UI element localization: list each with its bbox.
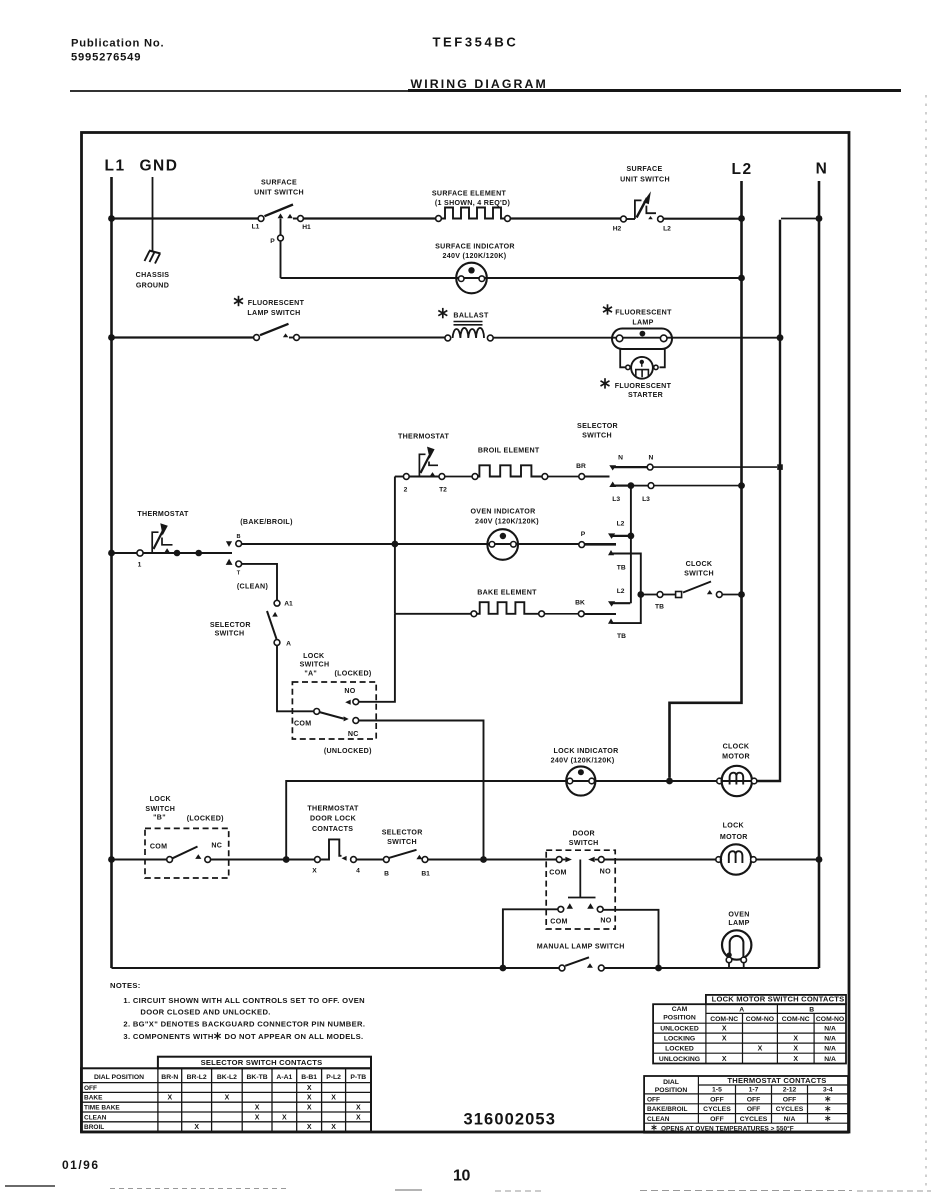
- svg-text:N/A: N/A: [824, 1026, 836, 1033]
- svg-text:BAKE ELEMENT: BAKE ELEMENT: [477, 589, 537, 597]
- wire BK input to selector: [584, 613, 616, 615]
- switch selector switch (left) A1-A: [274, 600, 280, 606]
- svg-text:WIRING DIAGRAM: WIRING DIAGRAM: [411, 77, 548, 91]
- svg-text:TEF354BC: TEF354BC: [433, 35, 519, 50]
- switch selector (BAKE/BROIL) contact: [226, 541, 232, 547]
- node junction N top rail: [816, 215, 823, 222]
- wire BR to selector: [585, 476, 610, 478]
- svg-text:THERMOSTAT: THERMOSTAT: [137, 510, 189, 518]
- svg-text:X: X: [307, 1124, 312, 1131]
- svg-text:B: B: [236, 534, 240, 540]
- svg-text:T2: T2: [439, 487, 447, 494]
- node junction door row x483: [480, 856, 487, 863]
- lamp lock indicator: [566, 766, 595, 795]
- svg-text:SURFACE: SURFACE: [627, 165, 663, 173]
- svg-text:LOCK: LOCK: [303, 652, 325, 660]
- svg-text:CLEAN: CLEAN: [647, 1116, 670, 1123]
- node junction bottom row x503: [500, 965, 507, 972]
- svg-text:LOCKING: LOCKING: [664, 1036, 695, 1043]
- svg-text:(CLEAN): (CLEAN): [237, 583, 269, 591]
- wire fluorescent row segment 1: [112, 336, 254, 338]
- svg-text:B-B1: B-B1: [301, 1074, 317, 1081]
- svg-text:CYCLES: CYCLES: [776, 1106, 804, 1113]
- svg-text:SWITCH: SWITCH: [569, 839, 599, 847]
- svg-text:COM-NO: COM-NO: [816, 1016, 844, 1023]
- wire door row segment 1: [112, 859, 167, 861]
- svg-text:LOCKED: LOCKED: [665, 1046, 694, 1053]
- svg-text:1: 1: [138, 562, 142, 569]
- table selector switch contacts: [158, 1057, 371, 1069]
- node junction L2 indicator row: [738, 275, 745, 282]
- svg-text:SELECTOR: SELECTOR: [577, 422, 618, 430]
- svg-text:L3: L3: [642, 496, 650, 503]
- svg-text:P-TB: P-TB: [350, 1074, 366, 1081]
- svg-text:"A": "A": [304, 669, 317, 677]
- wire P branch from surface unit switch: [280, 219, 282, 279]
- svg-text:DOOR: DOOR: [572, 830, 594, 838]
- wire bottom row segment 1: [112, 967, 560, 969]
- node junction TB bracket clock row: [637, 591, 644, 598]
- svg-text:MANUAL LAMP SWITCH: MANUAL LAMP SWITCH: [537, 943, 625, 951]
- svg-text:X: X: [331, 1095, 336, 1102]
- svg-text:X: X: [722, 1056, 727, 1063]
- svg-text:TB: TB: [617, 633, 626, 640]
- svg-text:CLOCK: CLOCK: [723, 743, 750, 751]
- svg-text:SWITCH: SWITCH: [684, 570, 714, 578]
- svg-text:POSITION: POSITION: [655, 1087, 688, 1094]
- svg-text:LOCK MOTOR SWITCH CONTACTS: LOCK MOTOR SWITCH CONTACTS: [712, 995, 845, 1004]
- lamp oven lamp: [722, 930, 751, 959]
- heater bake element: [471, 611, 477, 617]
- svg-text:UNIT SWITCH: UNIT SWITCH: [620, 176, 670, 184]
- svg-text:L3: L3: [612, 496, 620, 503]
- switch manual lamp switch: [559, 965, 565, 971]
- svg-text:MOTOR: MOTOR: [722, 753, 750, 761]
- svg-text:N: N: [816, 161, 829, 178]
- svg-text:CYCLES: CYCLES: [740, 1116, 768, 1123]
- svg-text:01/96: 01/96: [62, 1158, 100, 1172]
- node junction L2 top rail: [738, 215, 745, 222]
- scan artifact bottom marks: [5, 1185, 55, 1187]
- svg-text:SURFACE INDICATOR: SURFACE INDICATOR: [435, 243, 515, 251]
- svg-text:B1: B1: [421, 871, 430, 878]
- svg-text:NC: NC: [211, 842, 222, 850]
- svg-text:LAMP: LAMP: [632, 319, 653, 327]
- node junction L1 fluorescent row: [108, 334, 115, 341]
- wire top rail segment 2: [304, 217, 436, 219]
- svg-text:1. CIRCUIT SHOWN WITH ALL CON: 1. CIRCUIT SHOWN WITH ALL CONTROLS SET T…: [123, 996, 365, 1005]
- svg-text:X: X: [758, 1046, 763, 1053]
- svg-text:THERMOSTAT CONTACTS: THERMOSTAT CONTACTS: [727, 1076, 826, 1085]
- wire x395 vertical upper: [394, 477, 396, 614]
- svg-text:L2: L2: [617, 588, 625, 595]
- svg-text:X: X: [793, 1046, 798, 1053]
- svg-text:3. COMPONENTS WITH: 3. COMPONENTS WITH: [123, 1032, 213, 1041]
- svg-text:N/A: N/A: [824, 1056, 836, 1063]
- wire top rail segment 3: [511, 217, 621, 219]
- wire P input to selector: [585, 544, 616, 546]
- svg-text:2. BG"X" DENOTES BACKGUARD CO: 2. BG"X" DENOTES BACKGUARD CONNECTOR PIN…: [123, 1020, 365, 1029]
- svg-text:OFF: OFF: [747, 1106, 761, 1113]
- svg-text:TIME BAKE: TIME BAKE: [84, 1105, 120, 1112]
- svg-text:DIAL POSITION: DIAL POSITION: [94, 1074, 144, 1081]
- svg-text:A: A: [286, 641, 291, 648]
- svg-text:DOOR CLOSED AND UNLOCKED.: DOOR CLOSED AND UNLOCKED.: [140, 1008, 270, 1017]
- header rule: [70, 90, 408, 92]
- heater broil element: [472, 474, 478, 480]
- svg-text:COM: COM: [549, 869, 566, 877]
- switch fluorescent lamp switch marker: [234, 296, 243, 306]
- svg-text:SURFACE: SURFACE: [261, 179, 297, 187]
- svg-text:CHASSIS: CHASSIS: [136, 271, 170, 279]
- svg-text:"B": "B": [153, 814, 166, 822]
- wire broil row lead: [395, 476, 403, 478]
- node junction fluorescent to N branch: [777, 334, 784, 341]
- switch surface unit switch (left): [258, 216, 264, 222]
- svg-text:316002053: 316002053: [464, 1111, 557, 1129]
- svg-text:DIAL: DIAL: [663, 1079, 679, 1086]
- svg-text:L1: L1: [105, 158, 126, 175]
- node junction L1 top rail: [108, 215, 115, 222]
- wire door row segment 6: [487, 859, 557, 861]
- svg-text:B: B: [809, 1007, 814, 1014]
- node junction oven indicator row x395: [392, 541, 399, 548]
- svg-text:T: T: [237, 571, 241, 577]
- svg-text:X: X: [225, 1095, 230, 1102]
- node junction L1 door row: [108, 856, 115, 863]
- svg-text:BK-L2: BK-L2: [217, 1074, 237, 1081]
- svg-text:OFF: OFF: [710, 1116, 724, 1123]
- switch selector L3 contact: [609, 482, 616, 488]
- switch lock switch A contacts: [314, 709, 320, 715]
- svg-text:SWITCH: SWITCH: [387, 838, 417, 846]
- wire top rail segment 4: [664, 218, 740, 220]
- svg-text:SELECTOR SWITCH CONTACTS: SELECTOR SWITCH CONTACTS: [201, 1058, 323, 1067]
- svg-text:B: B: [384, 871, 389, 878]
- switch fluorescent lamp switch: [254, 335, 260, 341]
- wire A to lock switch A COM: [277, 646, 314, 712]
- wire N branch to N bus top: [781, 218, 818, 220]
- svg-text:NO: NO: [600, 917, 611, 925]
- switch selector B-B1: [383, 857, 389, 863]
- svg-text:OVEN INDICATOR: OVEN INDICATOR: [470, 508, 535, 516]
- svg-text:240V (120K/120K): 240V (120K/120K): [475, 518, 539, 526]
- svg-text:L1: L1: [252, 224, 260, 231]
- svg-text:NO: NO: [600, 868, 611, 876]
- svg-text:SWITCH: SWITCH: [215, 630, 245, 638]
- wire door row segment 8: [756, 859, 817, 861]
- svg-text:SELECTOR: SELECTOR: [382, 829, 423, 837]
- svg-text:UNLOCKED: UNLOCKED: [660, 1026, 699, 1033]
- svg-text:LOCK INDICATOR: LOCK INDICATOR: [553, 747, 618, 755]
- svg-text:FLUORESCENT: FLUORESCENT: [248, 299, 305, 307]
- svg-text:240V (120K/120K): 240V (120K/120K): [443, 252, 507, 260]
- switch door switch plunger: [579, 860, 581, 898]
- svg-text:LOCK: LOCK: [723, 822, 745, 830]
- table thermostat contacts: [644, 1076, 848, 1133]
- svg-text:4: 4: [356, 868, 360, 875]
- lamp fluorescent starter marker: [601, 378, 610, 388]
- wire door row segment 3: [289, 859, 314, 861]
- svg-text:TB: TB: [617, 565, 626, 572]
- table thermostat contacts footnote: [652, 1125, 657, 1131]
- wire L3 contact to L2 bus: [654, 485, 739, 487]
- svg-text:UNLOCKING: UNLOCKING: [659, 1056, 700, 1063]
- wire broil row segment: [445, 476, 472, 478]
- terminal P input: [579, 542, 585, 548]
- svg-text:NC: NC: [348, 730, 359, 738]
- wire door switch COM2 to lamp row: [503, 909, 558, 965]
- terminal BR input: [579, 474, 585, 480]
- switch selector TB lower contact arrow: [608, 618, 614, 623]
- svg-text:COM: COM: [294, 720, 311, 728]
- svg-text:2-12: 2-12: [783, 1087, 797, 1094]
- svg-text:X: X: [307, 1085, 312, 1092]
- wire bake row lead: [395, 613, 471, 615]
- node junction N bus door row: [816, 856, 823, 863]
- wire fluorescent row segment 3: [493, 337, 778, 339]
- chassis ground symbol: [149, 251, 161, 254]
- svg-text:OFF: OFF: [84, 1085, 97, 1092]
- lamp fluorescent starter leads: [620, 349, 625, 367]
- svg-text:X: X: [356, 1105, 361, 1112]
- wire selector vertical x631: [630, 486, 632, 604]
- svg-text:X: X: [312, 868, 317, 875]
- switch selector (CLEAN) contact: [226, 559, 233, 565]
- svg-text:CLEAN: CLEAN: [84, 1114, 107, 1121]
- node junction door row x286: [283, 856, 290, 863]
- svg-text:3-4: 3-4: [823, 1087, 833, 1094]
- scan artifact right page edge: [925, 95, 927, 1190]
- svg-text:SELECTOR: SELECTOR: [210, 621, 251, 629]
- svg-text:BR: BR: [576, 463, 586, 470]
- wire lock indicator row riser: [286, 781, 780, 857]
- wire L1 bus: [110, 177, 113, 968]
- svg-text:STARTER: STARTER: [628, 391, 663, 399]
- wire surface indicator row: [281, 277, 740, 279]
- svg-text:OPENS AT OVEN TEMPERATURES > 5: OPENS AT OVEN TEMPERATURES > 550°F: [661, 1124, 794, 1132]
- svg-text:BROIL ELEMENT: BROIL ELEMENT: [478, 447, 540, 455]
- switch door switch upper contacts: [556, 857, 562, 863]
- svg-text:(UNLOCKED): (UNLOCKED): [324, 747, 372, 755]
- svg-text:POSITION: POSITION: [663, 1015, 696, 1022]
- node junction square N branch: [777, 464, 783, 470]
- svg-text:BALLAST: BALLAST: [453, 312, 489, 320]
- svg-text:A-A1: A-A1: [276, 1074, 292, 1081]
- svg-text:X: X: [307, 1095, 312, 1102]
- terminal BK input: [578, 611, 584, 617]
- node junction L1 thermostat row: [108, 550, 115, 557]
- svg-text:THERMOSTAT: THERMOSTAT: [398, 433, 450, 441]
- wire door row segment 5: [428, 859, 481, 861]
- svg-text:SURFACE ELEMENT: SURFACE ELEMENT: [432, 190, 507, 198]
- svg-text:BR-N: BR-N: [161, 1074, 178, 1081]
- svg-text:THERMOSTAT: THERMOSTAT: [307, 805, 359, 813]
- svg-text:(LOCKED): (LOCKED): [187, 815, 224, 823]
- wire clock switch row lead: [644, 594, 657, 596]
- wire thermostat row lead: [112, 552, 138, 554]
- lamp fluorescent lamp: [612, 329, 672, 350]
- wire bake row to BK: [545, 613, 579, 615]
- svg-text:(1 SHOWN, 4 REQ'D): (1 SHOWN, 4 REQ'D): [435, 199, 511, 207]
- svg-text:X: X: [282, 1114, 287, 1121]
- svg-text:5995276549: 5995276549: [71, 52, 141, 64]
- drawing border frame: [82, 133, 850, 1133]
- svg-text:OVEN: OVEN: [728, 911, 749, 919]
- svg-text:COM-NC: COM-NC: [710, 1016, 738, 1023]
- thermostat broil (upper): [403, 474, 409, 480]
- svg-text:FLUORESCENT: FLUORESCENT: [615, 309, 672, 317]
- svg-text:OFF: OFF: [783, 1096, 797, 1103]
- svg-text:COM: COM: [150, 843, 167, 851]
- svg-text:BAKE: BAKE: [84, 1095, 103, 1102]
- svg-text:P: P: [581, 531, 586, 538]
- svg-text:X: X: [793, 1036, 798, 1043]
- svg-text:A: A: [739, 1007, 744, 1014]
- svg-text:DO NOT APPEAR ON ALL MODELS.: DO NOT APPEAR ON ALL MODELS.: [225, 1032, 364, 1041]
- svg-text:N/A: N/A: [824, 1036, 836, 1043]
- wire broil row to BR: [548, 476, 579, 478]
- node pin dot thermostat a: [174, 550, 181, 557]
- svg-text:X: X: [255, 1105, 260, 1112]
- svg-text:TB: TB: [655, 604, 664, 611]
- motor lock motor: [716, 857, 722, 863]
- svg-text:COM: COM: [550, 918, 567, 926]
- node junction L2 jog lock row: [666, 778, 673, 785]
- svg-text:OFF: OFF: [747, 1096, 761, 1103]
- svg-text:(LOCKED): (LOCKED): [334, 670, 371, 678]
- svg-text:SWITCH: SWITCH: [300, 661, 330, 669]
- svg-text:L2: L2: [617, 521, 625, 528]
- svg-text:X: X: [255, 1114, 260, 1121]
- svg-text:1-7: 1-7: [749, 1087, 759, 1094]
- wire door row segment 4: [357, 859, 384, 861]
- svg-text:CYCLES: CYCLES: [703, 1106, 731, 1113]
- svg-text:SWITCH: SWITCH: [145, 805, 175, 813]
- svg-text:BK: BK: [575, 600, 585, 607]
- svg-text:GROUND: GROUND: [136, 282, 169, 290]
- svg-text:N/A: N/A: [784, 1116, 796, 1123]
- svg-text:A1: A1: [284, 601, 293, 608]
- svg-text:X: X: [307, 1105, 312, 1112]
- svg-text:H2: H2: [613, 226, 622, 233]
- svg-text:X: X: [194, 1124, 199, 1131]
- svg-text:MOTOR: MOTOR: [720, 833, 748, 841]
- wire door switch NO2 down: [603, 910, 658, 965]
- svg-text:BR-L2: BR-L2: [187, 1074, 207, 1081]
- motor clock motor: [717, 778, 723, 784]
- switch door switch dashed box: [546, 850, 615, 929]
- switch lock switch B dashed box: [145, 828, 229, 878]
- inductor ballast: [454, 321, 483, 323]
- wire door row segment 2: [211, 859, 284, 861]
- wire L2 bus with jog to lock indicator row: [670, 181, 742, 778]
- switch selector TB upper contact: [608, 550, 614, 555]
- svg-text:N: N: [618, 455, 623, 462]
- svg-text:X: X: [722, 1026, 727, 1033]
- svg-text:N: N: [648, 455, 653, 462]
- svg-text:L2: L2: [732, 161, 753, 178]
- wire oven indicator row: [242, 543, 616, 545]
- svg-text:CLOCK: CLOCK: [686, 560, 713, 568]
- thermostat oven (left): [137, 550, 143, 556]
- wire N branch vertical x=780: [757, 220, 780, 781]
- svg-text:LAMP SWITCH: LAMP SWITCH: [247, 309, 300, 317]
- svg-text:NO: NO: [344, 687, 355, 695]
- heater surface element: [436, 216, 442, 222]
- svg-text:Publication No.: Publication No.: [71, 38, 164, 50]
- svg-text:BROIL: BROIL: [84, 1124, 104, 1131]
- svg-text:CAM: CAM: [672, 1006, 688, 1013]
- svg-text:BAKE/BROIL: BAKE/BROIL: [647, 1106, 687, 1113]
- switch selector N contact: [609, 465, 616, 470]
- svg-text:X: X: [331, 1124, 336, 1131]
- svg-text:NOTES:: NOTES:: [110, 981, 141, 990]
- wire NC contact to door row: [359, 721, 484, 858]
- svg-text:10: 10: [453, 1168, 470, 1185]
- switch clock switch: [657, 592, 663, 598]
- switch door switch lower contacts: [567, 903, 573, 908]
- switch surface unit switch (right) thermostat-style: [621, 216, 627, 222]
- svg-text:COM-NC: COM-NC: [782, 1016, 810, 1023]
- lamp surface indicator: [456, 263, 487, 294]
- lamp fluorescent lamp marker: [603, 304, 612, 314]
- svg-text:GND: GND: [140, 158, 179, 175]
- inductor ballast marker: [438, 308, 447, 318]
- wire fluorescent row segment 2: [300, 337, 445, 339]
- wire N contact to N branch: [653, 466, 777, 468]
- node junction clock switch L2 bus: [738, 591, 745, 598]
- svg-text:2: 2: [404, 487, 408, 494]
- svg-text:L2: L2: [663, 226, 671, 233]
- switch lock switch A dashed box: [292, 682, 376, 739]
- node pin dot thermostat b: [195, 550, 202, 557]
- svg-text:P-L2: P-L2: [326, 1074, 341, 1081]
- svg-text:(BAKE/BROIL): (BAKE/BROIL): [240, 518, 293, 526]
- svg-text:240V (120K/120K): 240V (120K/120K): [551, 757, 615, 765]
- svg-text:CONTACTS: CONTACTS: [312, 825, 353, 833]
- svg-text:OFF: OFF: [710, 1096, 724, 1103]
- wire N bus: [818, 181, 821, 968]
- table lock motor switch contacts: [706, 995, 846, 1004]
- svg-text:H1: H1: [302, 224, 311, 231]
- svg-text:SWITCH: SWITCH: [582, 432, 612, 440]
- svg-text:COM-NO: COM-NO: [746, 1016, 774, 1023]
- svg-text:N/A: N/A: [824, 1046, 836, 1053]
- wire top rail segment 1: [112, 217, 259, 219]
- svg-text:X: X: [167, 1095, 172, 1102]
- svg-text:FLUORESCENT: FLUORESCENT: [615, 382, 672, 390]
- lamp fluorescent starter: [626, 365, 630, 369]
- svg-text:UNIT SWITCH: UNIT SWITCH: [254, 189, 304, 197]
- node junction bottom row x658: [655, 965, 662, 972]
- wire bottom row segment 2: [604, 967, 819, 969]
- svg-text:BK-TB: BK-TB: [247, 1074, 268, 1081]
- thermostat door lock contacts: [315, 857, 321, 863]
- svg-text:1-5: 1-5: [712, 1087, 722, 1094]
- svg-text:OFF: OFF: [647, 1096, 660, 1103]
- svg-text:X: X: [793, 1056, 798, 1063]
- wire door row segment 7: [604, 859, 716, 861]
- wire clean contact to A1: [242, 564, 277, 600]
- svg-text:LAMP: LAMP: [728, 919, 749, 927]
- svg-text:X: X: [722, 1036, 727, 1043]
- svg-text:P: P: [270, 238, 275, 245]
- switch lock switch B contacts: [167, 857, 173, 863]
- svg-text:DOOR LOCK: DOOR LOCK: [310, 815, 357, 823]
- wire GND stub: [152, 177, 154, 252]
- svg-text:X: X: [356, 1114, 361, 1121]
